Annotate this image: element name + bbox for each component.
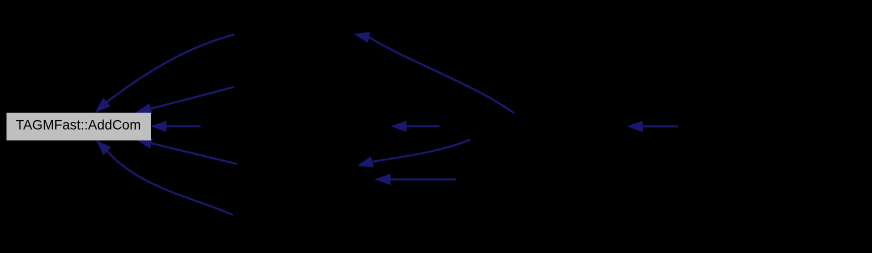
edge R3 to C (horizontal): [391, 121, 440, 132]
edge R3 to A (long curve): [354, 32, 515, 113]
svg-text:TAGMFast::AddCom: TAGMFast::AddCom: [16, 117, 141, 132]
node TAGMFast::AddCom (highlighted caller-graph node): [7, 113, 152, 141]
edge E to AddCom (bottom curve): [96, 140, 233, 215]
edge R4 to D (horizontal): [375, 174, 457, 185]
edge A to AddCom (top curve): [95, 35, 235, 113]
edge C to AddCom (horizontal): [151, 121, 201, 132]
edge R3 to D (diagonal): [357, 140, 471, 168]
edge Q to R3 (horizontal): [627, 121, 678, 132]
edge D to AddCom (lower line): [136, 138, 237, 164]
edge B to AddCom (upper line): [135, 87, 234, 114]
